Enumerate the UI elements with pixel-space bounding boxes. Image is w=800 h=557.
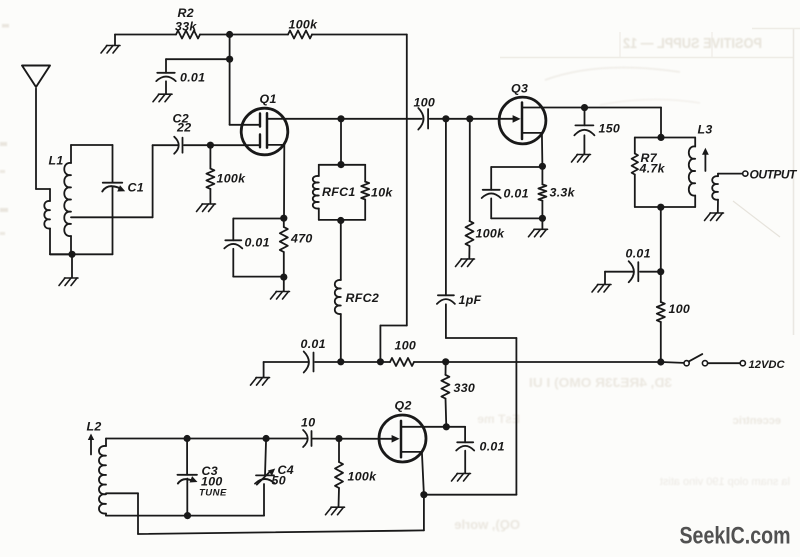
svg-text:100: 100 <box>414 96 436 110</box>
svg-text:0.01: 0.01 <box>626 246 651 260</box>
svg-text:la snam olop 190 vino atist: la snam olop 190 vino atist <box>660 476 790 488</box>
svg-text:Q1: Q1 <box>260 92 277 106</box>
svg-text:100: 100 <box>201 474 223 488</box>
svg-text:SeekIC.com: SeekIC.com <box>680 523 791 550</box>
svg-text:0.01: 0.01 <box>245 236 270 250</box>
svg-text:C1: C1 <box>128 181 144 195</box>
svg-text:OUTPUT: OUTPUT <box>750 167 799 181</box>
svg-text:OQ), worle: OQ), worle <box>454 517 520 532</box>
svg-text:1pF: 1pF <box>459 293 482 307</box>
svg-text:0.01: 0.01 <box>504 187 529 201</box>
svg-text:EsT me: EsT me <box>477 412 520 426</box>
svg-text:L3: L3 <box>698 122 713 136</box>
svg-text:10k: 10k <box>371 185 393 199</box>
svg-text:0.01: 0.01 <box>301 337 326 351</box>
svg-text:L2: L2 <box>87 419 102 433</box>
svg-text:4.7k: 4.7k <box>639 162 666 176</box>
svg-text:150: 150 <box>599 122 621 136</box>
svg-text:POSITIVE SUPPL — 12: POSITIVE SUPPL — 12 <box>623 35 762 52</box>
svg-text:100k: 100k <box>217 172 247 186</box>
svg-text:0.01: 0.01 <box>480 439 505 453</box>
svg-text:0.01: 0.01 <box>180 71 205 85</box>
svg-text:10: 10 <box>301 416 315 430</box>
svg-text:R2: R2 <box>178 6 194 20</box>
svg-text:100k: 100k <box>289 18 319 32</box>
svg-text:50: 50 <box>272 474 286 488</box>
svg-text:12VDC: 12VDC <box>749 359 786 371</box>
svg-text:470: 470 <box>290 232 313 246</box>
svg-text:3.3k: 3.3k <box>550 186 576 200</box>
svg-text:RFC2: RFC2 <box>346 291 380 305</box>
svg-text:22: 22 <box>176 121 191 135</box>
svg-text:Q2: Q2 <box>395 398 412 412</box>
svg-text:3D, 4REJ3R OMO) I UI: 3D, 4REJ3R OMO) I UI <box>529 375 672 390</box>
svg-text:L1: L1 <box>49 154 64 168</box>
svg-text:Q3: Q3 <box>511 82 528 96</box>
svg-text:TUNE: TUNE <box>199 488 227 499</box>
svg-text:eccentric: eccentric <box>733 415 781 427</box>
svg-text:33k: 33k <box>175 20 197 34</box>
svg-text:RFC1: RFC1 <box>322 185 356 199</box>
svg-text:100: 100 <box>395 339 417 353</box>
svg-text:100k: 100k <box>476 227 506 241</box>
svg-text:100: 100 <box>669 302 691 316</box>
svg-text:100k: 100k <box>348 469 378 483</box>
svg-text:330: 330 <box>454 381 476 395</box>
